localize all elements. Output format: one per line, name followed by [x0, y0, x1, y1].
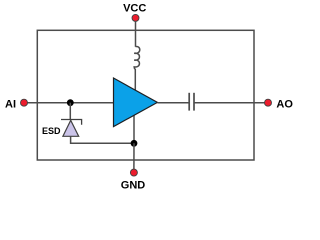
wire ground junction to GND pin: [133, 143, 135, 170]
wire amplifier bottom to ground junction: [133, 115, 135, 144]
wire capacitor to AO pin: [194, 102, 265, 104]
svg-text:GND: GND: [121, 179, 146, 191]
svg-text:ESD: ESD: [42, 126, 61, 136]
svg-text:AO: AO: [276, 99, 293, 111]
wire inductor to amplifier top: [134, 69, 136, 91]
ESD diode cathode bar with hook: [61, 120, 82, 125]
inductor L1: [134, 46, 140, 69]
capacitor C1 right plate: [193, 93, 195, 111]
IC package outline box: [37, 30, 254, 160]
capacitor C1 left plate: [188, 93, 190, 111]
wire junction to ESD diode cathode: [69, 103, 71, 120]
op-amp buffer U1: [114, 78, 158, 127]
svg-text:AI: AI: [5, 99, 16, 111]
wire amplifier output to capacitor: [157, 102, 189, 104]
node GND junction dot: [131, 140, 138, 147]
wire AI input line: [24, 102, 114, 104]
ESD diode D1: [63, 120, 79, 136]
wire ESD anode to ground rail: [71, 136, 134, 143]
pin VCC terminal: [132, 14, 139, 21]
wire VCC pin down to inductor: [135, 21, 137, 47]
svg-text:VCC: VCC: [123, 3, 146, 15]
pin AO terminal: [265, 99, 272, 106]
pin AI terminal: [21, 99, 28, 106]
node A junction dot (input node): [67, 99, 74, 106]
pin GND terminal: [130, 169, 137, 176]
